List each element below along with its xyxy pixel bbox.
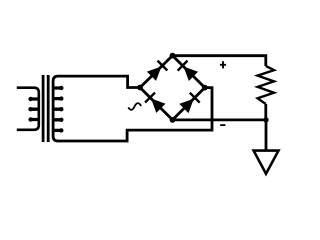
transformer T1 secondary winding (55, 88, 61, 130)
junction dot (263, 117, 268, 122)
wire resistor bottom to junction (264, 104, 267, 120)
transformer core bar 2 (47, 75, 50, 142)
node dot top (170, 53, 176, 59)
node dot bottom (170, 117, 176, 123)
diode D1 left to top (147, 61, 167, 81)
transformer core bar 1 (42, 75, 45, 142)
wire transformer secondary loop to bridge AC input nodes (53, 76, 212, 141)
label plus (220, 61, 226, 68)
wire junction to ground (265, 120, 268, 151)
wire bridge edge bottom-left (140, 88, 173, 120)
node dot left (137, 85, 143, 91)
wire bridge edge top-right (173, 56, 205, 88)
node dot right (202, 85, 208, 91)
transformer T1 primary winding (17, 88, 39, 130)
resistor R1 (258, 66, 274, 104)
label minus (220, 124, 225, 126)
ground symbol (254, 151, 279, 174)
wire bridge edge left-top (140, 56, 173, 88)
wire bridge edge bottom-right (173, 88, 205, 120)
wire minus output: bottom node to junction (173, 119, 267, 122)
diode D4 bottom to right (179, 93, 199, 113)
diode D2 right to top (178, 61, 198, 81)
diode D3 bottom to left (145, 93, 165, 113)
AC sine symbol (128, 103, 141, 110)
wire plus output: top node to resistor top (173, 56, 266, 66)
